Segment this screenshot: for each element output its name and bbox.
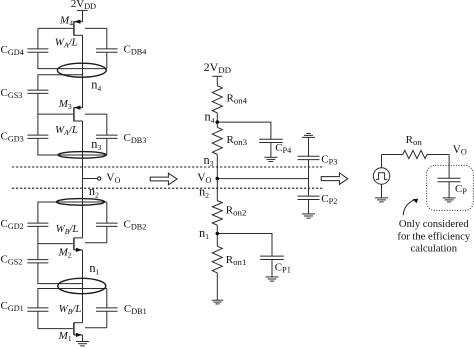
svg-text:Only considered: Only considered: [399, 219, 469, 230]
svg-text:for the efficiency: for the efficiency: [397, 231, 470, 242]
svg-text:2VDD: 2VDD: [71, 0, 96, 11]
svg-text:calculation: calculation: [411, 244, 458, 255]
